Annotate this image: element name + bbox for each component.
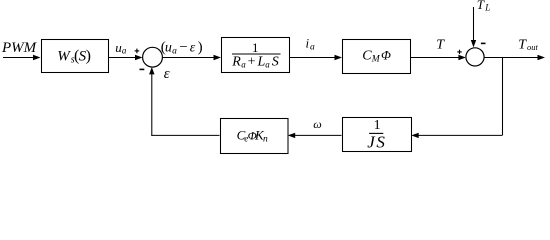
wire block1 to summer1 bbox=[108, 55, 143, 60]
svg-text:T: T bbox=[436, 38, 445, 53]
wire PWM input arrow bbox=[3, 55, 41, 60]
plus sign at summer2 bbox=[457, 50, 461, 54]
svg-text:CeΦKn: CeΦKn bbox=[237, 128, 268, 145]
block 1/(Ra+LaS) bbox=[222, 38, 290, 73]
minus sign at summer2 top-right bbox=[481, 42, 486, 44]
svg-text:TL: TL bbox=[477, 0, 490, 13]
summing junction 1 bbox=[143, 47, 163, 67]
svg-text:Ra+LaS: Ra+LaS bbox=[231, 54, 278, 69]
wire tap down from output node bbox=[502, 58, 504, 136]
svg-text:ω: ω bbox=[313, 117, 321, 131]
block 1/JS bbox=[343, 118, 412, 152]
minus sign at summer1 bottom-left bbox=[140, 68, 145, 70]
wire feedback left bbox=[151, 134, 219, 136]
wire block5 to block4 bbox=[288, 133, 342, 138]
wire summer1 to block2 bbox=[162, 55, 221, 60]
svg-text:ε: ε bbox=[164, 66, 170, 82]
wire block3 to summer2 bbox=[410, 55, 466, 60]
wire block2 to block3 bbox=[289, 55, 342, 60]
svg-text:Ws(S): Ws(S) bbox=[57, 47, 91, 65]
plus sign at summer1 bbox=[135, 49, 140, 54]
wire tap to block 1/JS bbox=[411, 133, 502, 138]
svg-text:1: 1 bbox=[252, 40, 259, 55]
block C_e Phi K_n bbox=[221, 119, 289, 154]
summing junction 2 bbox=[466, 48, 484, 66]
svg-text:PWM: PWM bbox=[1, 40, 38, 56]
block C_M Phi bbox=[343, 40, 411, 74]
wire T_L arrow into summer2 bbox=[471, 7, 476, 47]
wire feedback up into summer1 bbox=[149, 67, 154, 136]
svg-text:JS: JS bbox=[367, 132, 385, 151]
wire output to T_out bbox=[484, 55, 545, 60]
svg-text:1: 1 bbox=[374, 118, 381, 133]
block W_s(S) bbox=[42, 40, 109, 73]
